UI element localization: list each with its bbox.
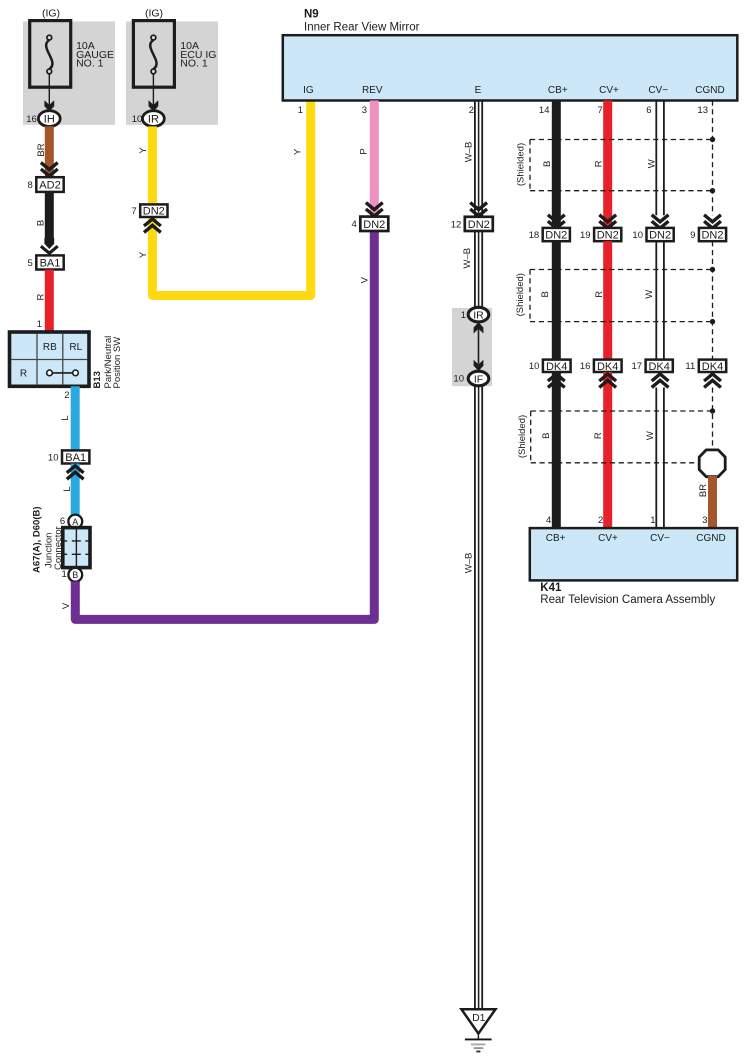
wire W CV- from N9 to DN2 [655,101,657,216]
wire L from BA1 to junction A [71,464,80,515]
wire B from DN2 to DK4 [552,241,561,360]
svg-text:R: R [594,160,605,167]
svg-text:IH: IH [44,114,55,126]
svg-text:Connector: Connector [53,526,64,570]
svg-text:BA1: BA1 [40,258,61,270]
connector DN2 pin 18 [543,228,570,241]
svg-text:RL: RL [69,342,82,353]
connector DK4 pin 16 [594,360,622,372]
svg-text:N9: N9 [304,9,319,21]
svg-text:17: 17 [632,361,643,372]
wire W-B from E to DN2 [474,101,476,218]
svg-text:9: 9 [690,230,695,241]
svg-text:B: B [541,433,552,439]
wire fuse output [152,74,154,109]
svg-text:E: E [475,85,482,96]
svg-text:DK4: DK4 [546,361,567,373]
wire BR from IH to AD2 [45,126,54,177]
connector DN2 pin 4 [360,217,388,231]
svg-text:IF: IF [474,373,483,385]
svg-text:10: 10 [632,230,643,241]
svg-text:10: 10 [132,114,143,125]
svg-text:K41: K41 [540,582,562,594]
wire W from DN2 to DK4 [655,241,657,360]
connector DK4 pin 10 [543,360,571,372]
svg-text:IG: IG [303,85,314,96]
svg-text:W–B: W–B [464,553,475,574]
shield box 3 [531,410,713,412]
svg-text:DN2: DN2 [143,206,165,218]
fuse block background [126,21,218,124]
svg-text:DN2: DN2 [597,230,619,242]
svg-text:19: 19 [580,230,591,241]
svg-text:NO. 1: NO. 1 [180,58,208,70]
fuse ECU IG NO. 1 [133,21,174,88]
wire B from AD2 to BA1 [45,192,54,244]
svg-text:Position SW: Position SW [112,337,123,389]
svg-text:8: 8 [28,180,33,191]
wire R from DK4 to K41 [603,372,612,529]
fuse block background [23,21,115,124]
svg-text:AD2: AD2 [39,180,60,192]
svg-text:4: 4 [546,515,551,526]
svg-text:CGND: CGND [695,85,724,96]
wire B CB+ from N9 to DN2 [552,101,561,229]
wire B from DK4 to K41 [552,372,561,529]
switch B13 Park/Neutral Position SW [10,332,90,386]
svg-text:CB+: CB+ [548,85,568,96]
wire R from DN2 to DK4 [603,241,612,360]
junction connector A67(A) D60(B) [63,528,90,568]
svg-text:R: R [594,291,605,298]
svg-text:18: 18 [529,230,540,241]
svg-text:A67(A), D60(B): A67(A), D60(B) [32,506,43,573]
noise filter octagon [699,450,725,477]
svg-text:L: L [60,415,71,420]
shield box 1 [530,139,713,141]
svg-text:16: 16 [580,361,591,372]
connector DN2 pin 19 [594,228,621,241]
wire P from REV to DN2 [370,101,379,218]
wire W-B from IF to ground D1 [474,386,476,1010]
connector DN2 pin 10 [647,228,674,241]
svg-text:3: 3 [362,105,367,116]
svg-text:1: 1 [650,515,655,526]
svg-text:14: 14 [539,105,550,116]
connector DN2 pin 7 [140,204,167,217]
fuse GAUGE NO. 1 [30,21,71,88]
svg-text:DN2: DN2 [363,219,385,231]
ECU K41 Rear Television Camera Assembly [530,528,737,580]
connector DN2 pin 9 [699,228,726,241]
svg-text:D1: D1 [472,1012,486,1024]
wire Y from IR to DN2 to IG [152,101,310,296]
svg-text:CV+: CV+ [599,85,619,96]
svg-text:Y: Y [138,147,149,154]
svg-text:Rear Television Camera Assembl: Rear Television Camera Assembly [540,594,715,606]
svg-text:3: 3 [702,515,707,526]
svg-text:4: 4 [352,219,357,230]
connector DK4 pin 17 [646,360,673,372]
svg-text:DN2: DN2 [468,219,490,231]
wire V from junction B to DN2 [75,231,374,619]
svg-text:1: 1 [37,319,42,330]
svg-text:Y: Y [138,251,149,258]
svg-text:IR: IR [473,309,484,321]
svg-text:6: 6 [646,105,651,116]
svg-text:NO. 1: NO. 1 [76,58,104,70]
svg-text:(Shielded): (Shielded) [517,415,528,458]
shield junction dots [710,137,715,142]
svg-text:(Shielded): (Shielded) [515,273,526,316]
svg-text:11: 11 [685,361,695,372]
svg-text:1: 1 [461,310,466,321]
connector BA1 pin 10 [62,450,89,463]
wire fuse output [48,74,50,109]
svg-text:6: 6 [60,516,65,527]
svg-text:BR: BR [36,143,47,156]
wire W from DK4 to K41 [655,388,657,529]
svg-text:DK4: DK4 [597,361,618,373]
svg-text:16: 16 [26,114,37,125]
svg-text:P: P [359,148,370,154]
svg-text:(IG): (IG) [145,8,163,20]
svg-text:CV−: CV− [648,85,668,96]
svg-text:10: 10 [453,374,464,385]
svg-text:2: 2 [64,390,69,401]
svg-text:10: 10 [529,361,540,372]
svg-text:R: R [20,369,27,380]
svg-text:W: W [644,290,655,299]
svg-text:R: R [593,432,604,439]
svg-text:CB+: CB+ [546,533,566,544]
shield box 2 [530,269,713,271]
svg-text:REV: REV [362,85,383,96]
svg-text:B13: B13 [92,371,103,388]
connector DK4 pin 11 [699,360,726,372]
svg-text:13: 13 [697,105,708,116]
svg-text:7: 7 [131,206,136,217]
svg-text:BR: BR [698,484,709,497]
svg-text:V: V [61,602,72,609]
svg-text:IR: IR [148,114,159,126]
svg-text:12: 12 [451,219,462,230]
wire R CV+ from N9 to DN2 [603,101,612,229]
svg-text:(IG): (IG) [42,8,60,20]
svg-text:V: V [360,276,371,283]
connector BA1 pin 5 [36,255,63,269]
svg-text:DN2: DN2 [545,230,567,242]
wire BR from octagon to K41 [708,476,717,529]
svg-text:5: 5 [28,258,33,269]
svg-text:CV−: CV− [650,533,670,544]
svg-text:R: R [36,293,47,300]
svg-text:1: 1 [298,105,303,116]
svg-text:B: B [72,570,78,580]
svg-text:Y: Y [292,148,303,155]
svg-text:W: W [645,431,656,440]
svg-text:A: A [72,517,78,527]
svg-text:CGND: CGND [696,533,725,544]
svg-text:2: 2 [598,515,603,526]
svg-text:BA1: BA1 [65,452,86,464]
svg-text:RB: RB [43,342,57,353]
shield drain CGND dashed [712,101,714,216]
wire W-B from DN2 to IR [474,231,476,309]
ground D1 [461,1009,495,1033]
svg-text:W: W [647,159,658,168]
svg-text:DK4: DK4 [648,361,669,373]
wire R from BA1 to B13 [45,270,54,334]
svg-text:DN2: DN2 [649,230,671,242]
svg-text:B: B [36,220,47,226]
svg-text:(Shielded): (Shielded) [516,143,527,186]
connector pair IR/IF background [452,308,492,386]
svg-text:Inner Rear View Mirror: Inner Rear View Mirror [304,22,420,34]
mating arrows IR to IF [478,329,480,364]
svg-text:1: 1 [62,569,67,580]
svg-text:L: L [62,486,73,491]
connector DN2 pin 12 [465,217,493,231]
svg-text:2: 2 [469,105,474,116]
svg-text:B: B [540,291,551,297]
svg-text:W–B: W–B [462,248,473,269]
svg-text:10: 10 [48,452,59,463]
connector AD2 pin 8 [36,177,63,192]
svg-text:W–B: W–B [464,142,475,163]
svg-text:B: B [542,161,553,167]
svg-text:CV+: CV+ [598,533,618,544]
svg-text:DK4: DK4 [702,361,723,373]
svg-text:7: 7 [598,105,603,116]
wire L from B13 to BA1 [71,386,80,452]
svg-text:DN2: DN2 [701,230,723,242]
